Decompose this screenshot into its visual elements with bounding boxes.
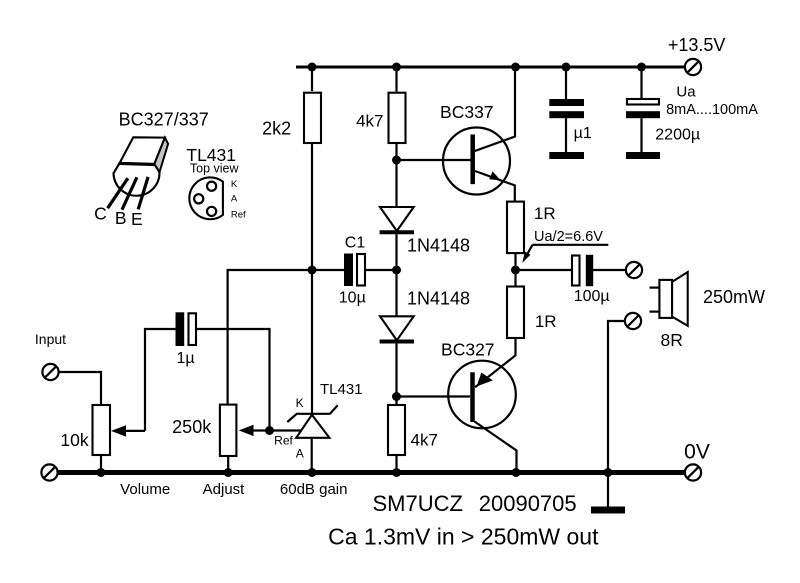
svg-text:250k: 250k [172,417,212,437]
svg-text:2k2: 2k2 [262,118,291,138]
svg-text:SM7UCZ: SM7UCZ [372,491,462,516]
svg-text:C: C [94,204,107,224]
svg-text:Top view: Top view [190,162,240,176]
svg-text:C1: C1 [345,235,366,252]
svg-text:+13.5V: +13.5V [668,35,726,55]
svg-text:1R: 1R [535,312,557,331]
svg-text:250mW: 250mW [703,287,765,307]
svg-text:4k7: 4k7 [410,431,437,450]
svg-text:BC337: BC337 [440,102,494,122]
svg-text:K: K [231,179,238,190]
svg-text:Ref: Ref [274,434,293,448]
svg-text:TL431: TL431 [320,381,363,398]
svg-text:A: A [231,193,238,204]
svg-text:20090705: 20090705 [479,491,577,516]
svg-text:8mA....100mA: 8mA....100mA [666,102,758,118]
svg-text:Ca 1.3mV in > 250mW out: Ca 1.3mV in > 250mW out [328,524,599,550]
svg-text:Ref: Ref [231,210,246,221]
svg-text:E: E [131,209,143,229]
svg-text:1N4148: 1N4148 [407,288,470,308]
svg-text:BC327/337: BC327/337 [119,110,209,130]
svg-text:2200µ: 2200µ [655,127,700,144]
svg-text:A: A [296,447,304,461]
svg-text:1N4148: 1N4148 [407,236,470,256]
svg-text:10k: 10k [60,430,88,450]
svg-text:Adjust: Adjust [203,481,246,498]
svg-text:Ua: Ua [676,84,696,101]
svg-text:10µ: 10µ [339,290,366,307]
svg-text:1µ: 1µ [177,350,195,367]
svg-text:8R: 8R [661,330,683,350]
svg-text:100µ: 100µ [574,288,610,305]
svg-text:Ua/2=6.6V: Ua/2=6.6V [534,229,603,245]
svg-text:4k7: 4k7 [356,112,383,131]
svg-text:Input: Input [35,331,66,347]
svg-text:µ1: µ1 [574,125,592,142]
svg-text:1R: 1R [534,204,556,223]
svg-text:B: B [115,208,127,228]
svg-text:BC327: BC327 [441,339,495,359]
svg-text:0V: 0V [684,441,710,464]
svg-text:60dB gain: 60dB gain [280,481,348,498]
svg-text:K: K [296,396,304,410]
svg-text:Volume: Volume [120,481,170,498]
